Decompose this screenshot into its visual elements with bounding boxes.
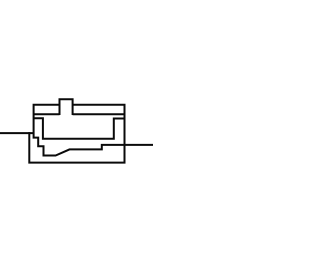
top tab (cap plug through lid) bbox=[60, 99, 73, 115]
wire: left terminal lead bbox=[0, 132, 34, 134]
inner element outline (left shelf, inner box, right shelf) bbox=[34, 118, 125, 139]
lid seam line, left segment bbox=[34, 113, 60, 115]
lid seam line, right segment bbox=[73, 113, 125, 115]
inner case top-left edge and stepped base plate with bevel, exiting as right terminal lead wire bbox=[34, 105, 153, 156]
outer enclosure case (left edge, bottom edge, shared right edge, top edge right of tab) bbox=[29, 105, 124, 163]
